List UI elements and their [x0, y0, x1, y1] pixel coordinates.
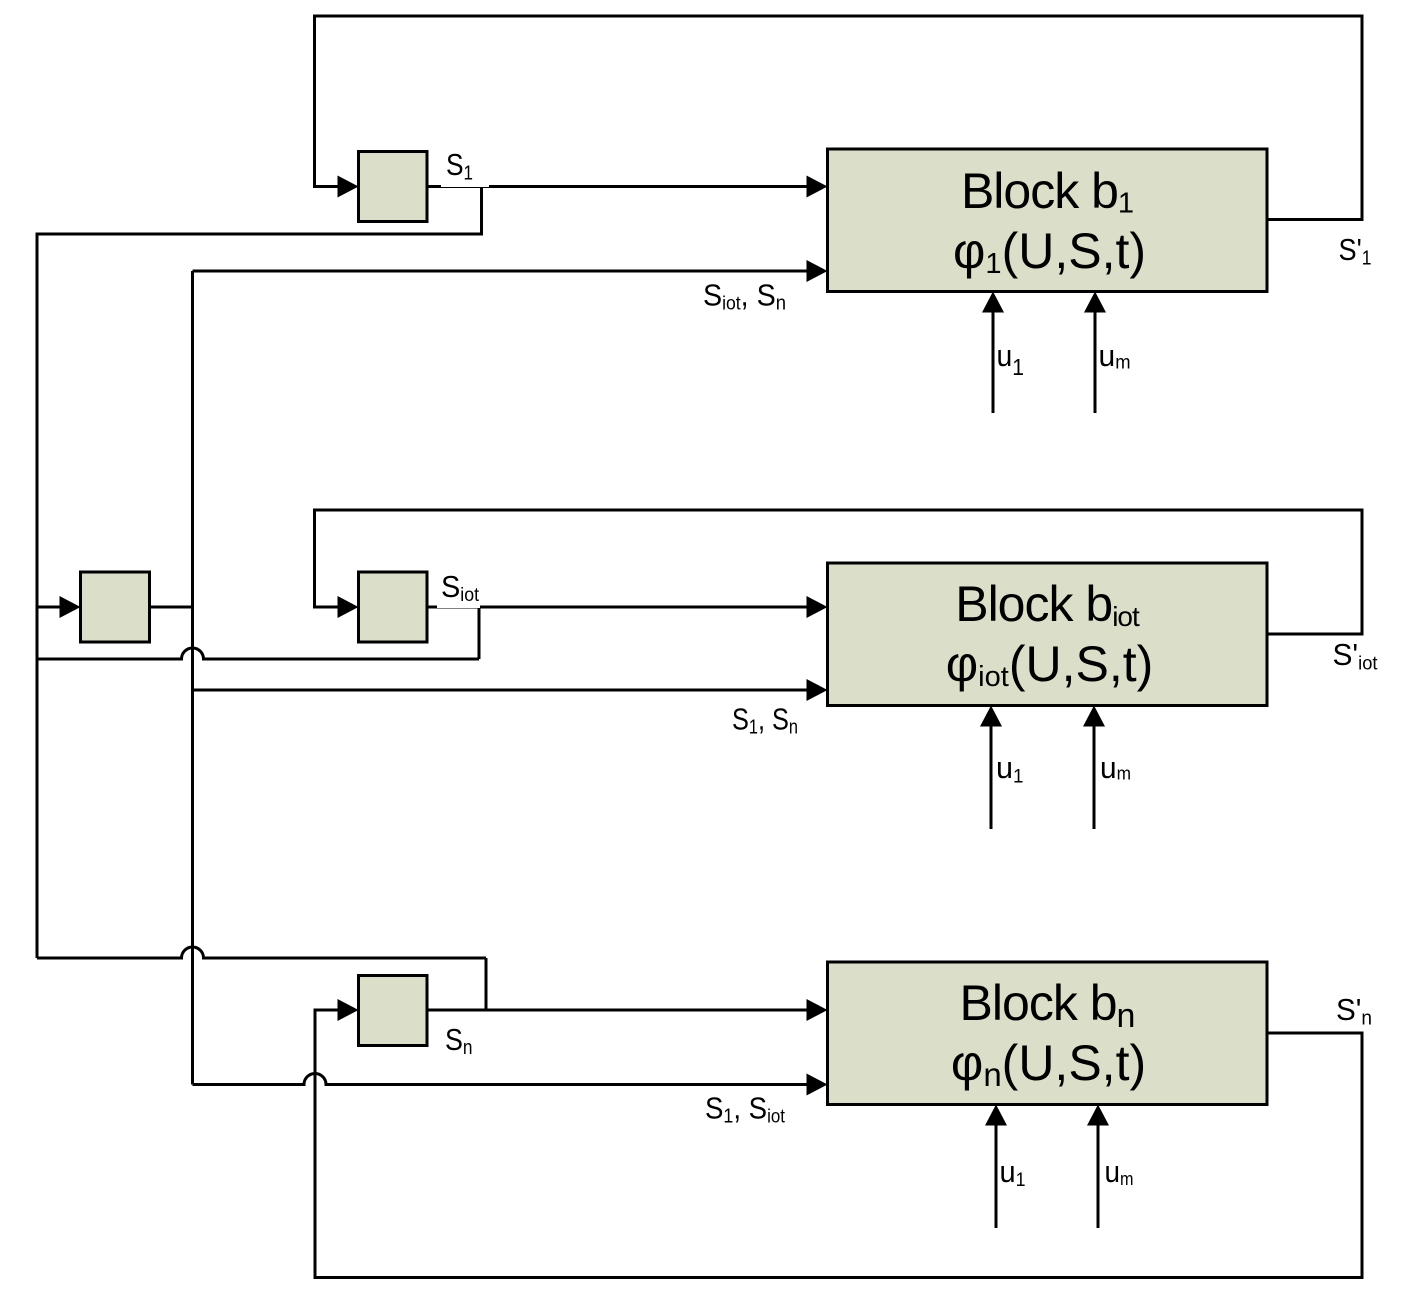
arrowhead into delay square S1 — [338, 176, 359, 198]
wire u1 into B1 — [992, 298, 995, 413]
svg-text:φ1(U,S,t): φ1(U,S,t) — [953, 223, 1146, 280]
arrowhead B1 input2 — [807, 260, 828, 282]
block Biot — [828, 563, 1268, 706]
wire bus to B1 input2 — [193, 270, 822, 273]
wire Sn to left column with hop — [37, 947, 486, 958]
wire Siot branch down — [478, 607, 481, 659]
arrowhead um B1 — [1084, 292, 1106, 313]
delay square bus — [81, 572, 150, 642]
svg-text:φiot(U,S,t): φiot(U,S,t) — [946, 636, 1154, 693]
wire Siot to left column with hop — [37, 648, 479, 659]
wire bus into left square — [37, 606, 74, 609]
wire um into Biot — [1093, 712, 1096, 829]
wire bus to Biot input2 — [193, 689, 822, 692]
svg-text:Block bn: Block bn — [960, 975, 1135, 1035]
wire S1 branch down-left — [37, 187, 482, 959]
wire S'1 feedback loop — [315, 16, 1363, 220]
label background notch under Siot — [437, 573, 480, 608]
wire Sn branch up — [485, 958, 488, 1010]
arrowhead into delay square Siot — [338, 596, 359, 618]
wire bus column vertical — [191, 271, 194, 1085]
wire S'n feedback loop — [315, 1010, 1362, 1278]
wire u1 into Biot — [990, 712, 993, 829]
arrowhead u1 B1 — [982, 292, 1004, 313]
wire Sn to Bn — [427, 1009, 821, 1012]
wire um into B1 — [1094, 298, 1097, 413]
delay square Sn — [359, 976, 428, 1046]
arrowhead um Biot — [1083, 706, 1105, 727]
arrowhead Bn input2 — [807, 1074, 828, 1096]
delay square Siot — [359, 572, 428, 642]
svg-text:S1, Sn: S1, Sn — [732, 702, 798, 739]
arrowhead Bn input1 — [807, 999, 828, 1021]
arrowhead B1 input1 — [807, 176, 828, 198]
label background notch under S1 — [441, 150, 489, 187]
arrowhead u1 Biot — [980, 706, 1002, 727]
arrowhead into left delay square — [60, 596, 81, 618]
block B1 — [828, 149, 1268, 292]
svg-text:φn(U,S,t): φn(U,S,t) — [951, 1035, 1146, 1093]
arrowhead Biot input1 — [807, 596, 828, 618]
wire Siot to Biot — [427, 606, 821, 609]
delay square S1 — [359, 152, 428, 222]
svg-text:Block b1: Block b1 — [961, 163, 1133, 220]
wire left square output — [150, 606, 193, 609]
wire u1 into Bn — [995, 1111, 998, 1228]
svg-text:Siot, Sn: Siot, Sn — [703, 278, 786, 315]
arrowhead u1 Bn — [985, 1105, 1007, 1126]
arrowhead um Bn — [1087, 1105, 1109, 1126]
wire bus to Bn input2 with hop — [193, 1074, 822, 1085]
block Bn — [828, 962, 1268, 1105]
wire S1 to B1 — [427, 185, 821, 188]
wire um into Bn — [1097, 1111, 1100, 1228]
wire S'iot feedback loop — [315, 510, 1363, 634]
arrowhead into delay square Sn — [338, 999, 359, 1021]
arrowhead Biot input2 — [807, 679, 828, 701]
